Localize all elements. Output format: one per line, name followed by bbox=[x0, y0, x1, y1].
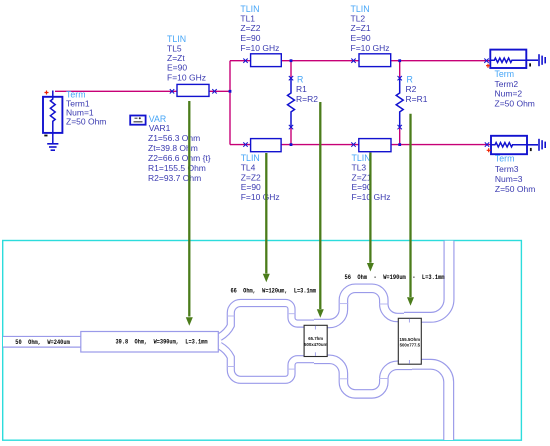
svg-text:Z=50 Ohm: Z=50 Ohm bbox=[495, 184, 535, 194]
svg-text:Z=50 Ohm: Z=50 Ohm bbox=[66, 116, 106, 126]
svg-text:R: R bbox=[297, 74, 303, 84]
svg-text:Z=Z2: Z=Z2 bbox=[241, 172, 261, 182]
svg-text:TLIN: TLIN bbox=[241, 153, 260, 163]
svg-text:Num=2: Num=2 bbox=[495, 89, 523, 99]
svg-text:F=10 GHz: F=10 GHz bbox=[167, 72, 206, 82]
svg-text:39.8 Ohm, W=390um, L=3.1mm: 39.8 Ohm, W=390um, L=3.1mm bbox=[116, 339, 208, 347]
svg-text:F=10 GHz: F=10 GHz bbox=[240, 43, 279, 53]
svg-text:500x470um: 500x470um bbox=[304, 342, 327, 347]
svg-text:R1=155.5 Ohm: R1=155.5 Ohm bbox=[148, 163, 206, 173]
svg-text:Z=Z1: Z=Z1 bbox=[351, 23, 371, 33]
svg-text:R=R1: R=R1 bbox=[406, 94, 428, 104]
svg-text:R: R bbox=[407, 74, 413, 84]
svg-text:E=90: E=90 bbox=[241, 182, 261, 192]
svg-text:Term2: Term2 bbox=[495, 79, 519, 89]
svg-text:Z1=56.3 Ohm: Z1=56.3 Ohm bbox=[148, 133, 200, 143]
svg-text:66 Ohm, W=120um, L=3.1mm: 66 Ohm, W=120um, L=3.1mm bbox=[231, 287, 317, 295]
svg-text:F=10 GHz: F=10 GHz bbox=[351, 43, 390, 53]
svg-text:56 Ohm - W=190um - L=3.1m: 56 Ohm - W=190um - L=3.1mm bbox=[345, 274, 445, 282]
svg-text:155.5Ohm: 155.5Ohm bbox=[400, 337, 421, 342]
svg-text:E=90: E=90 bbox=[167, 63, 187, 73]
svg-text:Num=3: Num=3 bbox=[495, 174, 523, 184]
svg-text:TL4: TL4 bbox=[241, 163, 256, 173]
svg-text:Term3: Term3 bbox=[495, 164, 519, 174]
svg-text:Z=Z2: Z=Z2 bbox=[240, 23, 260, 33]
svg-text:Z2=66.6 Ohm {t}: Z2=66.6 Ohm {t} bbox=[148, 153, 211, 163]
svg-text:TLIN: TLIN bbox=[351, 4, 370, 14]
svg-text:TL1: TL1 bbox=[240, 14, 255, 24]
svg-text:VAR1: VAR1 bbox=[149, 123, 171, 133]
svg-text:E=90: E=90 bbox=[351, 33, 371, 43]
svg-text:Z=Zt: Z=Zt bbox=[167, 53, 185, 63]
svg-text:TL3: TL3 bbox=[352, 163, 367, 173]
svg-text:R1: R1 bbox=[296, 84, 307, 94]
svg-text:50 Ohm, W=240um: 50 Ohm, W=240um bbox=[15, 339, 70, 347]
svg-text:F=10 GHz: F=10 GHz bbox=[241, 192, 280, 202]
svg-text:Term: Term bbox=[495, 154, 515, 164]
svg-text:R2=93.7 Ohm: R2=93.7 Ohm bbox=[148, 173, 201, 183]
svg-text:TLIN: TLIN bbox=[352, 153, 371, 163]
svg-text:65.7hm: 65.7hm bbox=[308, 336, 323, 341]
svg-text:E=90: E=90 bbox=[352, 182, 372, 192]
svg-text:500x777.5: 500x777.5 bbox=[400, 343, 421, 348]
svg-text:TLIN: TLIN bbox=[240, 4, 259, 14]
svg-text:TL2: TL2 bbox=[351, 14, 366, 24]
svg-text:Z=Z1: Z=Z1 bbox=[352, 172, 372, 182]
svg-text:Z=50 Ohm: Z=50 Ohm bbox=[495, 99, 535, 109]
svg-text:R=R2: R=R2 bbox=[296, 94, 318, 104]
svg-text:E=90: E=90 bbox=[240, 33, 260, 43]
svg-text:Term: Term bbox=[495, 69, 515, 79]
svg-text:R2: R2 bbox=[406, 84, 417, 94]
svg-text:TL5: TL5 bbox=[167, 43, 182, 53]
